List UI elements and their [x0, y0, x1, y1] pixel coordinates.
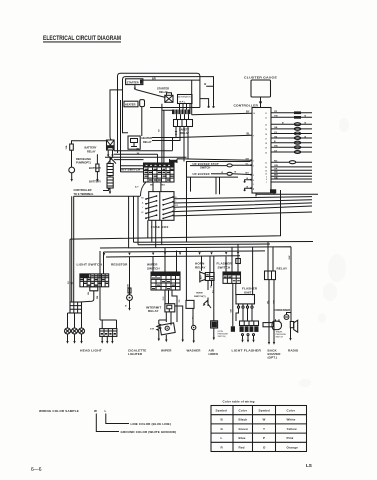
- pin6r wire GBr: [271, 178, 312, 180]
- svg-text:CLUSTER GAUGE: CLUSTER GAUGE: [244, 76, 277, 80]
- svg-text:WG: WG: [161, 184, 165, 186]
- pin20 wire GY: [271, 151, 312, 153]
- svg-text:YBr: YBr: [274, 146, 278, 148]
- pin11 connector: [294, 111, 301, 114]
- wire GR to pin1: [177, 159, 252, 163]
- svg-text:GY: GY: [274, 150, 278, 152]
- terminal dot: [208, 106, 210, 108]
- key switch cell marks: [145, 169, 174, 180]
- pin15 connector bump: [294, 127, 300, 130]
- svg-text:REFUELING: REFUELING: [76, 157, 91, 161]
- wire GL to pin2: [232, 164, 252, 166]
- bus line A: [70, 190, 281, 302]
- fuse output wires to right: [174, 197, 312, 216]
- svg-text:17: 17: [265, 138, 267, 140]
- wiper switch cell marks: [152, 278, 175, 289]
- light switch connector stub: [90, 287, 98, 291]
- svg-text:6: 6: [266, 179, 267, 181]
- pin19 wire YBr: [271, 146, 312, 148]
- svg-text:(OPT.): (OPT.): [268, 356, 278, 360]
- svg-text:22: 22: [265, 162, 267, 164]
- svg-text:16: 16: [265, 134, 267, 136]
- wires flasher switch down: [236, 247, 253, 295]
- svg-text:LS: LS: [306, 463, 312, 468]
- distribution line E: [106, 256, 240, 257]
- wires relay down: [269, 280, 274, 341]
- pin24 wire GR: [271, 169, 312, 171]
- svg-text:BG: BG: [246, 172, 250, 174]
- pin12 wire YW: [271, 116, 312, 118]
- color table grid: [211, 406, 307, 452]
- wires to relay: [268, 242, 273, 271]
- wires to horn relay: [202, 256, 211, 272]
- svg-text:Black: Black: [239, 418, 248, 422]
- flasher unit pins: [239, 304, 253, 306]
- svg-text:RESISTOR: RESISTOR: [111, 263, 128, 267]
- svg-text:G: G: [221, 427, 224, 431]
- radio terminal arrows: [290, 328, 292, 338]
- battery relay cross wires: [108, 157, 117, 164]
- safety relay K2: [174, 120, 193, 127]
- key switch S1 table: [144, 163, 175, 182]
- svg-text:Green: Green: [239, 427, 248, 431]
- pin16 connector bump: [294, 132, 300, 135]
- svg-text:ELECTRICAL CIRCUIT DIAGRAM: ELECTRICAL CIRCUIT DIAGRAM: [43, 36, 121, 42]
- svg-text:BL: BL: [247, 132, 251, 136]
- bus line C: [100, 196, 291, 321]
- air horn H2: [212, 322, 217, 328]
- wire BG to pin3: [232, 173, 252, 176]
- horn switch wire: [204, 298, 212, 309]
- light switch cell marks: [80, 276, 108, 285]
- cigarette lighter E2: [100, 329, 117, 337]
- heater glow element: [140, 100, 145, 107]
- svg-text:GB: GB: [231, 309, 233, 313]
- svg-text:BATTERY: BATTERY: [85, 146, 97, 150]
- svg-text:HEAD LIGHT: HEAD LIGHT: [80, 348, 102, 352]
- FUSE BUS: [70, 177, 313, 321]
- LEGEND: [31, 400, 312, 474]
- bus line B2: [138, 196, 270, 245]
- wiper motor M3: [160, 323, 175, 335]
- CONTROLLER: [173, 76, 319, 197]
- headlight connector: [70, 302, 82, 313]
- svg-text:SWITCH: SWITCH: [276, 337, 284, 339]
- engine boundary outer: [118, 73, 200, 153]
- svg-text:RB: RB: [179, 299, 181, 302]
- svg-text:CONTROLLER: CONTROLLER: [74, 188, 92, 192]
- controller bottom connector: [270, 189, 276, 193]
- wire BL to pin9: [173, 135, 253, 150]
- connector block (striped): [172, 110, 191, 115]
- resistor R1: [127, 295, 133, 301]
- light flasher upper row: [240, 321, 259, 326]
- wires wiper switch down: [165, 290, 177, 322]
- svg-text:B: B: [204, 82, 206, 86]
- svg-text:5: 5: [253, 184, 254, 186]
- starter relay K1: [165, 95, 173, 102]
- stop switch row wire: [190, 165, 227, 167]
- wire cluster to controller: [259, 97, 261, 108]
- flasher left terminal block: [231, 326, 235, 332]
- svg-text:STARTER: STARTER: [127, 80, 139, 84]
- wire E terminal to fuse box: [74, 195, 141, 197]
- wire W row: [114, 154, 158, 159]
- svg-text:GB: GB: [128, 284, 130, 288]
- svg-text:W: W: [263, 418, 266, 422]
- pin17 connector bump: [294, 137, 300, 140]
- SWITch ROW: [68, 242, 291, 342]
- wire relay to battery: [109, 158, 111, 164]
- wire to cigarette lighter: [100, 251, 117, 329]
- pin18 connector bump: [294, 141, 300, 144]
- wires intermit down: [166, 312, 171, 325]
- svg-text:SWITCH): SWITCH): [218, 336, 226, 338]
- wire heater down: [141, 107, 143, 136]
- svg-text:15: 15: [265, 129, 267, 131]
- battery relay K4: [107, 140, 115, 150]
- heater plug E1: [124, 101, 138, 107]
- svg-text:LIGHTER: LIGHTER: [128, 352, 143, 356]
- svg-text:HEATER: HEATER: [125, 103, 136, 107]
- wire flasher switch to terminal: [232, 283, 234, 326]
- wire BY to pin10: [192, 113, 252, 115]
- buzzer row wire: [211, 173, 227, 175]
- BATTERY KEYSWITCH: [65, 100, 177, 196]
- pin4 stub: [245, 180, 252, 181]
- wires horn relay down: [208, 256, 214, 321]
- flasher switch cell marks: [224, 277, 240, 281]
- pin16 wire YG: [271, 133, 312, 135]
- svg-text:RB: RB: [97, 295, 99, 299]
- head lamp L2: [72, 328, 78, 334]
- starter M1: [126, 79, 143, 85]
- svg-text:12: 12: [265, 118, 267, 120]
- fuse F0 15A: [70, 144, 74, 150]
- svg-text:WB: WB: [274, 175, 278, 177]
- svg-text:B: B: [125, 306, 127, 308]
- wires to wiper switch: [153, 248, 177, 273]
- svg-text:RELAY: RELAY: [277, 267, 288, 271]
- engine boundary inner: [123, 77, 214, 133]
- bus line D: [104, 251, 266, 274]
- svg-text:RW: RW: [175, 205, 178, 207]
- wires key switch top: [158, 104, 173, 163]
- svg-text:R: R: [221, 445, 224, 449]
- wire engine to battery relay: [110, 90, 123, 140]
- wire light switch down: [80, 291, 94, 302]
- resistor inline fuse: [128, 288, 131, 293]
- svg-text:GR: GR: [246, 158, 250, 160]
- svg-text:TO E TERMINAL: TO E TERMINAL: [74, 192, 95, 196]
- lamp terminal arrows: [68, 334, 82, 341]
- svg-text:14: 14: [265, 125, 267, 127]
- svg-text:GB: GB: [274, 127, 278, 129]
- wire to radio: [290, 318, 292, 322]
- washer motor M4: [192, 325, 196, 329]
- svg-text:UNIT: UNIT: [244, 290, 252, 294]
- wiper switch S4 table: [151, 272, 180, 290]
- svg-text:W: W: [94, 409, 97, 413]
- svg-text:HORN: HORN: [196, 293, 203, 295]
- svg-text:WASHER: WASHER: [187, 348, 202, 352]
- svg-text:RG: RG: [274, 161, 278, 163]
- svg-text:GROUND COLOR (WHITE GROUND): GROUND COLOR (WHITE GROUND): [121, 430, 177, 434]
- title underline: [43, 41, 121, 42]
- svg-text:Color: Color: [287, 409, 296, 413]
- pin19 connector bump: [294, 146, 300, 149]
- svg-text:LINE COLOR (BLUE LINE): LINE COLOR (BLUE LINE): [131, 422, 171, 426]
- connector oval: [227, 172, 232, 175]
- pump terminal arrow: [71, 173, 73, 179]
- svg-text:Blue: Blue: [239, 436, 246, 440]
- svg-text:White: White: [287, 418, 296, 422]
- wire starter to starter relay (diagonal): [136, 90, 166, 98]
- pin14 connector bump: [294, 123, 300, 126]
- refueling pump M2: [69, 167, 75, 173]
- wire controller bottom: [256, 193, 318, 197]
- svg-text:RW: RW: [68, 281, 70, 284]
- fuse F1 mid: [96, 164, 99, 172]
- cluster gauge P1: [251, 80, 271, 97]
- svg-text:Symbol: Symbol: [216, 409, 228, 413]
- svg-text:L: L: [221, 436, 223, 440]
- wires connector to lamps: [68, 313, 82, 328]
- controller U1: [252, 108, 271, 194]
- BOTTOM COMPONENTS: [65, 247, 299, 360]
- svg-text:8: 8: [253, 189, 254, 191]
- fuses column1: [146, 196, 157, 218]
- svg-text:RELAY: RELAY: [143, 140, 152, 144]
- pin23 wire GW: [271, 166, 312, 168]
- svg-text:Orange: Orange: [287, 445, 299, 449]
- pin7r wire: [271, 181, 312, 183]
- svg-text:A Y: A Y: [135, 186, 139, 189]
- wire to resistor: [129, 257, 131, 295]
- svg-text:10: 10: [253, 113, 255, 115]
- svg-text:9: 9: [253, 135, 254, 137]
- light flasher terminals: [242, 334, 244, 336]
- left wire tick arrow: [71, 283, 73, 286]
- ur box drop wire: [187, 177, 191, 242]
- connector oval: [227, 164, 232, 167]
- wire BL row: [114, 150, 173, 152]
- battery relay connector: [107, 145, 114, 148]
- safety relay wires down: [152, 127, 188, 162]
- pin14 wire: [271, 123, 312, 125]
- battery relay terminal arrows: [108, 150, 112, 155]
- svg-text:6—6: 6—6: [31, 467, 42, 473]
- pin5 stub: [245, 188, 252, 189]
- svg-text:Color table of wiring: Color table of wiring: [223, 400, 255, 404]
- ENGINE AREA: [105, 73, 215, 161]
- head lamp L1: [65, 328, 71, 334]
- wire battery relay feed top: [72, 141, 107, 144]
- svg-text:Pink: Pink: [287, 436, 294, 440]
- washer terminal arrows: [193, 330, 195, 341]
- svg-text:RELAY: RELAY: [148, 309, 159, 313]
- fuse dots c2: [162, 196, 174, 219]
- svg-text:R P L: R P L: [180, 102, 186, 104]
- wire lower row to buzzer box: [105, 156, 187, 158]
- svg-text:Red: Red: [239, 445, 245, 449]
- svg-text:Yellow: Yellow: [287, 427, 298, 431]
- svg-text:20: 20: [265, 152, 267, 154]
- wires to flasher switch: [226, 245, 238, 273]
- svg-text:23: 23: [265, 167, 267, 169]
- svg-text:HEATER: HEATER: [142, 136, 153, 140]
- wires flasher unit to light flasher: [236, 308, 252, 321]
- svg-text:3: 3: [253, 175, 254, 177]
- battery terminal arrow: [109, 188, 111, 192]
- battery B2: [107, 177, 113, 188]
- fusible link tag: [169, 160, 177, 163]
- svg-text:WIRING COLOR SAMPLE: WIRING COLOR SAMPLE: [39, 409, 79, 413]
- svg-text:KEY SWITCH: KEY SWITCH: [120, 167, 140, 171]
- wire to washer: [185, 247, 187, 301]
- svg-text:Symbol: Symbol: [259, 409, 271, 413]
- svg-text:A: A: [142, 201, 144, 204]
- flasher unit U2: [236, 295, 255, 304]
- svg-text:YB: YB: [274, 136, 277, 138]
- svg-text:B: B: [235, 172, 237, 174]
- svg-text:2: 2: [253, 165, 254, 167]
- alternator G1: [178, 95, 193, 104]
- left harness verticals: [72, 196, 74, 302]
- flasher switch S5 table: [223, 272, 241, 283]
- svg-text:BR: BR: [273, 300, 275, 304]
- pin17 wire YB: [271, 137, 312, 139]
- battery B1: [107, 164, 113, 176]
- svg-text:HORN: HORN: [209, 352, 218, 356]
- flasher column connectors: [236, 259, 241, 264]
- svg-text:BATTERY: BATTERY: [89, 180, 101, 184]
- svg-text:24: 24: [265, 171, 267, 173]
- svg-text:18: 18: [265, 143, 267, 145]
- fuses column2: [163, 197, 173, 218]
- intermit relay K7: [165, 304, 175, 312]
- light flasher dark row: [240, 326, 259, 332]
- svg-text:B: B: [221, 418, 224, 422]
- scan stains: [299, 118, 349, 387]
- pin4r wire WB: [271, 175, 312, 177]
- fuse dots c1: [145, 195, 157, 219]
- svg-text:RADIO: RADIO: [288, 348, 299, 352]
- svg-text:GR: GR: [274, 169, 278, 171]
- ur buzzer bottom wires: [216, 177, 220, 194]
- svg-text:LIGHT SWITCH: LIGHT SWITCH: [77, 263, 103, 267]
- svg-text:RB: RB: [141, 198, 144, 200]
- wires key switch to fuse box: [141, 182, 161, 196]
- svg-text:Color: Color: [239, 409, 248, 413]
- svg-text:BR: BR: [152, 77, 156, 81]
- bus line B: [134, 196, 314, 242]
- svg-text:SWITCH(?): SWITCH(?): [194, 296, 206, 298]
- svg-text:UR BUZZER: UR BUZZER: [193, 172, 210, 176]
- svg-text:CONDENSER: CONDENSER: [274, 308, 291, 312]
- E terminal arrow: [103, 190, 109, 192]
- heater relay K3: [128, 136, 140, 149]
- svg-text:P: P: [263, 436, 265, 440]
- svg-text:Y: Y: [263, 427, 265, 431]
- wire B loop right of alternator: [200, 86, 214, 106]
- svg-text:LR: LR: [141, 212, 144, 214]
- pin20 connector bump: [294, 151, 300, 154]
- terminal dot: [212, 106, 214, 108]
- pin12 connector: [294, 116, 301, 119]
- svg-text:WIPER: WIPER: [161, 348, 172, 352]
- light switch S3 table: [80, 274, 109, 287]
- back buzzer terminal arrows: [269, 330, 274, 342]
- pin22 wire RG: [271, 161, 312, 163]
- fuse box bottom drops: [148, 220, 162, 247]
- radio speaker SP1: [290, 322, 293, 328]
- svg-text:L: L: [142, 207, 143, 209]
- svg-text:RELAY: RELAY: [87, 149, 96, 153]
- svg-text:Y: Y: [175, 209, 177, 211]
- wire BY vertical from BR: [191, 80, 193, 115]
- svg-text:FUSE BOX: FUSE BOX: [151, 225, 169, 229]
- condenser C1: [287, 313, 292, 315]
- svg-text:W: W: [137, 151, 140, 155]
- lighter terminal arrows: [102, 336, 112, 341]
- pin11 wire YR: [271, 112, 312, 114]
- safety relay lower terminal: [175, 129, 177, 133]
- fuse box FB1: [149, 192, 174, 221]
- alternator pins down: [180, 104, 191, 110]
- svg-text:STARTER: STARTER: [157, 87, 169, 91]
- svg-text:L: L: [105, 409, 107, 413]
- wiper terminal arrows: [165, 335, 167, 340]
- back buzzer H3: [263, 323, 274, 327]
- svg-text:RELAY: RELAY: [195, 265, 206, 269]
- svg-text:1: 1: [253, 161, 254, 163]
- svg-text:PUMP(OPT.): PUMP(OPT.): [76, 161, 91, 165]
- pin15 wire GB: [271, 128, 312, 130]
- starter terminal tick: [134, 85, 136, 88]
- key switch feed wires left: [121, 100, 144, 172]
- svg-text:WB: WB: [158, 128, 160, 132]
- head lamp L3: [79, 328, 85, 334]
- TITLE: [43, 36, 121, 42]
- svg-text:15A: 15A: [65, 145, 68, 149]
- svg-text:BL: BL: [137, 147, 141, 151]
- horn relay K5: [200, 271, 206, 283]
- svg-text:SWITCH: SWITCH: [218, 265, 231, 269]
- svg-text:19: 19: [265, 148, 267, 150]
- wire BR starter feed: [143, 79, 200, 81]
- svg-text:4: 4: [253, 180, 254, 182]
- svg-text:O: O: [263, 445, 266, 449]
- svg-text:ALTERNATOR: ALTERNATOR: [178, 96, 191, 99]
- svg-text:GBr: GBr: [274, 177, 278, 179]
- svg-text:YR: YR: [274, 111, 277, 113]
- pin13 wire YBr: [271, 172, 312, 174]
- svg-text:BATTERY: BATTERY: [89, 166, 101, 170]
- svg-text:11: 11: [265, 113, 267, 115]
- relay K6: [265, 271, 276, 280]
- svg-text:YG: YG: [274, 132, 277, 134]
- svg-text:2×R: 2×R: [150, 327, 154, 330]
- resistor terminal: [129, 301, 131, 309]
- ur buzzer box: [187, 162, 251, 178]
- svg-text:BL: BL: [88, 291, 90, 295]
- svg-text:13: 13: [265, 174, 267, 176]
- pin22 connector bump: [289, 161, 295, 164]
- drop arrows on distribution: [103, 252, 239, 256]
- pin18 wire: [271, 142, 312, 144]
- sample leader lines: [96, 414, 129, 432]
